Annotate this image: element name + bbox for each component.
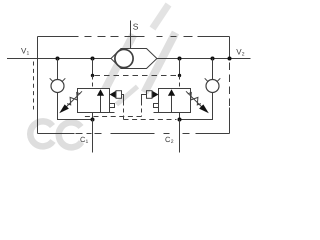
svg-text:1: 1 (86, 139, 89, 145)
enclosure right side lower (229, 108, 231, 134)
wire check left lower L to C1 node (58, 93, 93, 120)
pilot line into valve 1 top (92, 76, 94, 89)
valve 2 spring (188, 93, 201, 105)
check valve CV2 ball (206, 80, 219, 93)
svg-text:1: 1 (27, 50, 30, 56)
C2 node (178, 118, 182, 122)
junction node on V1 at check riser (56, 57, 60, 61)
label V2 (236, 48, 245, 58)
junction node on V2 at valve riser (178, 57, 182, 61)
watermark letter ring 1 (30, 121, 53, 146)
valve 2 pilot line down (141, 102, 143, 117)
watermark top band (153, 5, 169, 29)
valve 1 pilot stub wire (122, 95, 124, 102)
check valve CV1 ball (51, 80, 64, 93)
port line C1 (92, 120, 94, 153)
valve 1 flow arrow (97, 89, 104, 112)
enclosure left side (37, 37, 39, 134)
valve 1 adjust arrow (59, 91, 82, 113)
valve 2 flow arrow (168, 89, 175, 112)
check valve CV1 seat (50, 78, 66, 82)
port line S (130, 21, 132, 49)
counterbalance valve 1 body (78, 89, 110, 113)
valve 2 pilot stub wire (142, 95, 147, 102)
junction node on V2 at enclosure corner (228, 57, 232, 61)
watermark diagonal band A (104, 35, 134, 93)
label C1 (80, 135, 89, 145)
junction node on V1 at valve riser (91, 57, 95, 61)
wire check riser left upper (57, 59, 59, 80)
pilot tap node right (178, 74, 181, 77)
wire valve 1 bottom to C1 node (92, 113, 94, 120)
C1 node (91, 118, 95, 122)
valve 1 pilot line to C2 node (124, 119, 177, 121)
watermark diagonal band B (145, 33, 176, 93)
wire valve 2 bottom to C2 node (179, 113, 181, 120)
watermark letter ring 2 (59, 122, 82, 147)
valve 1 pilot piston box (116, 91, 122, 99)
pilot tap node left (91, 74, 94, 77)
svg-text:S: S (133, 21, 139, 31)
port line V2 (157, 58, 251, 60)
enclosure right side dashed (229, 63, 231, 107)
shuttle valve ball (115, 49, 133, 67)
valve 1 pilot line down (123, 102, 125, 120)
wire check riser right upper (212, 59, 214, 80)
label V1 (21, 46, 30, 56)
shuttle valve body (111, 49, 157, 69)
watermark cross arm (117, 87, 138, 105)
svg-text:2: 2 (171, 139, 174, 145)
counterbalance valve 2 body (159, 89, 191, 113)
svg-text:2: 2 (242, 52, 245, 58)
enclosure top dash-dot line (38, 36, 230, 38)
valve 2 adjust arrow (186, 91, 209, 113)
pilot crossover line between risers (95, 75, 178, 77)
wire riser V2 to pilot tap (179, 59, 181, 76)
valve 2 pilot line to C1 riser (85, 116, 142, 118)
junction node on V2 at check riser (211, 57, 215, 61)
valve 2 piston step box (154, 104, 159, 113)
wire check right lower L to C2 node (180, 93, 213, 120)
enclosure bottom dash-dot line (38, 133, 230, 135)
valve 1 pilot piston triangle (110, 91, 117, 99)
inner dashed line left (33, 62, 35, 110)
port line V1 (7, 58, 112, 60)
valve 2 pilot piston triangle (152, 91, 159, 99)
pilot line into valve 2 top (179, 76, 181, 89)
valve 1 piston step box (110, 104, 115, 113)
enclosure right side upper solid (229, 37, 231, 59)
label C2 (165, 135, 174, 145)
valve 1 spring (67, 93, 80, 105)
valve 2 pilot piston box (147, 91, 153, 99)
port line C2 (179, 120, 181, 153)
check valve CV2 seat (205, 78, 221, 82)
wire riser V1 to pilot tap (92, 59, 94, 76)
